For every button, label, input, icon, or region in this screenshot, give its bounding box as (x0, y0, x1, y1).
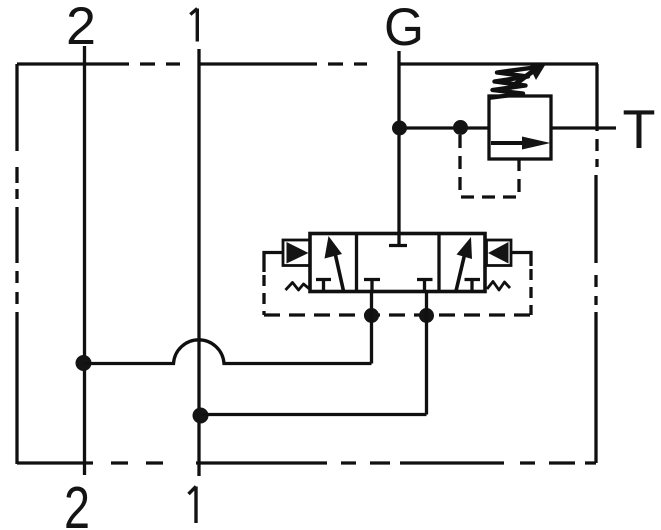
directional valve DV body (310, 234, 485, 292)
label 1 top (190, 9, 197, 42)
enclosure border left (dash-dot) (15, 64, 18, 464)
solenoid left triangle (287, 242, 309, 264)
wire relief valve to T (551, 126, 616, 129)
centre cell blocked port T-symbol (port 1) (417, 280, 433, 292)
relief valve spring (zigzag) (488, 65, 543, 99)
solenoid right box (487, 240, 512, 266)
svg-text:2: 2 (64, 475, 90, 530)
relief valve RV body (489, 96, 551, 159)
relief valve flow arrow (491, 137, 551, 150)
label T (623, 98, 656, 160)
label 2 top (66, 0, 96, 56)
junction dot at G line (392, 121, 407, 136)
wire right solenoid pilot dashed (529, 269, 532, 315)
junction dot on port 1 line (193, 408, 209, 424)
enclosure border bottom (dash-dot) (17, 461, 596, 464)
wire G to relief valve (main pressure line) (399, 126, 489, 129)
enclosure border right (dash-dot) (596, 64, 597, 463)
relief valve adjustment arrow (510, 62, 547, 88)
relief valve pilot drain line (dashed) (460, 135, 519, 197)
G port plug bar inside centre cell (389, 244, 407, 247)
label G (384, 0, 424, 57)
svg-text:2: 2 (66, 0, 96, 56)
label 1 bottom (189, 487, 197, 524)
centre cell blocked port T-symbol (port 2) (364, 280, 380, 292)
left cell flow arrow (325, 236, 344, 291)
junction dot on port 2 line (76, 355, 92, 371)
port 2 line (vertical) (83, 46, 86, 475)
port 1 line (vertical) (197, 49, 200, 476)
right cell flow arrow (456, 237, 472, 291)
spring right (under solenoid) (487, 282, 510, 291)
junction dot pilot rail left (364, 308, 379, 323)
wire right solenoid pilot (511, 253, 531, 267)
wire riser valve port 2 (370, 292, 373, 364)
node G line (vertical from G label to valve) (397, 51, 400, 246)
junction dot pilot rail right (419, 308, 434, 323)
spring left (under solenoid) (286, 283, 310, 291)
wire port 2 to valve (with hop over port 1) (84, 340, 372, 364)
pilot rail dashed (below valve) (264, 313, 531, 316)
label 2 bottom (64, 475, 90, 530)
svg-text:T: T (623, 98, 656, 160)
wire riser valve port 1 (425, 292, 428, 415)
wire port 1 to valve (201, 413, 427, 416)
junction dot before relief valve (453, 120, 468, 135)
valve position divider left (355, 234, 358, 292)
solenoid left box (283, 240, 310, 266)
svg-text:G: G (384, 0, 424, 57)
wire left solenoid pilot (264, 253, 283, 273)
wire left solenoid pilot dashed (262, 275, 265, 315)
left cell blocked port T-symbol (316, 280, 331, 292)
valve position divider right (437, 234, 440, 292)
right cell blocked port T-symbol (465, 280, 481, 292)
enclosure border top (dash-dot) (17, 62, 598, 65)
solenoid right triangle (488, 242, 509, 264)
